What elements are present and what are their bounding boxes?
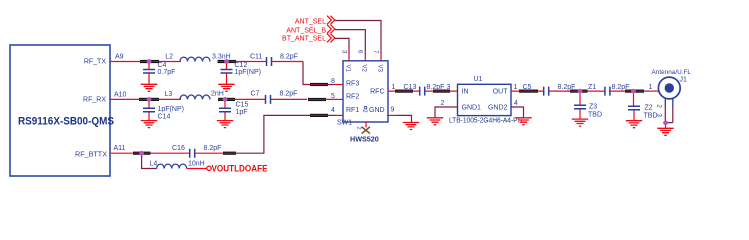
capacitor C15 [219, 108, 231, 112]
wire RF_TX row [110, 61, 303, 63]
component Z2 [628, 106, 640, 110]
SW1 GND pin 2 stub [365, 122, 367, 127]
svg-text:SW1: SW1 [337, 120, 352, 127]
pad bar C5 [519, 90, 538, 93]
wire to VOUTLDOAFE [187, 168, 207, 170]
svg-text:C11: C11 [250, 54, 262, 61]
svg-text:Z2: Z2 [645, 105, 653, 112]
svg-text:3: 3 [447, 84, 451, 91]
svg-text:7: 7 [372, 50, 378, 54]
ground under C14 [141, 121, 157, 128]
svg-text:8.2pF: 8.2pF [280, 91, 298, 98]
ground under C4 [141, 84, 157, 91]
pad bar U1 IN pin [433, 90, 450, 93]
svg-text:A10: A10 [114, 91, 127, 98]
junction dot at J1 shield [663, 120, 668, 125]
component Z3 [574, 105, 586, 109]
wire RF_TX to RF3 (routed) [303, 62, 335, 85]
svg-text:ANT_SEL: ANT_SEL [295, 18, 326, 25]
capacitor C4 [143, 70, 155, 74]
svg-text:A9: A9 [115, 54, 124, 61]
svg-text:8.2pF: 8.2pF [204, 145, 222, 152]
off-page connector BT_ANT_SEL [327, 34, 335, 43]
wire J1 shield to ground [665, 107, 673, 123]
svg-text:9: 9 [391, 107, 395, 114]
wire U1 OUT row [511, 90, 625, 92]
connector J1 center pin [665, 83, 674, 92]
svg-text:U1: U1 [474, 76, 483, 83]
svg-text:RS9116X-SB00-QMS: RS9116X-SB00-QMS [18, 116, 114, 128]
svg-text:RF_BTTX: RF_BTTX [75, 149, 107, 158]
svg-text:C7: C7 [251, 91, 260, 98]
capacitor C12 lead [226, 64, 228, 85]
off-page connector ANT_SEL_B [327, 25, 335, 34]
svg-text:V1: V1 [345, 65, 351, 73]
svg-text:1: 1 [649, 84, 653, 91]
svg-text:2: 2 [361, 109, 367, 113]
no-connect X on pin 2 [362, 127, 370, 134]
capacitor C16 [190, 149, 195, 158]
svg-text:RF1: RF1 [346, 107, 359, 114]
component Z2 lead [633, 93, 635, 106]
ground under C15 [217, 121, 233, 128]
svg-text:6: 6 [357, 50, 363, 54]
svg-text:RF2: RF2 [346, 94, 359, 101]
svg-text:J1: J1 [680, 76, 688, 83]
wire shield ground lead [665, 125, 667, 129]
svg-text:3.3nH: 3.3nH [212, 54, 231, 61]
ground under Z2 [626, 121, 642, 128]
junction dot at C15 [223, 97, 228, 102]
band-pass filter U1 body [458, 84, 512, 115]
inductor L2 [180, 57, 210, 61]
svg-text:GND1: GND1 [462, 105, 482, 112]
pad bar row3 right [223, 152, 236, 155]
svg-text:1pF: 1pF [236, 109, 248, 116]
svg-text:C4: C4 [158, 62, 167, 69]
pad bar RFC pin [395, 90, 413, 93]
svg-text:ANT_SEL_B: ANT_SEL_B [286, 27, 326, 34]
svg-text:GND: GND [369, 107, 385, 114]
wire core stripes through pad bars [133, 62, 644, 154]
svg-text:RFC: RFC [370, 88, 384, 95]
SW1 GND pin 9 wire [397, 115, 412, 122]
svg-text:OUT: OUT [493, 89, 509, 96]
inductor L3 [180, 95, 210, 99]
svg-text:C14: C14 [158, 114, 171, 121]
svg-text:L4: L4 [150, 161, 158, 168]
ground at U1 GND1 [427, 118, 443, 125]
pad bar row1 left [140, 60, 159, 63]
junction dot at Z2 [631, 89, 636, 94]
svg-text:BT_ANT_SEL: BT_ANT_SEL [282, 36, 326, 43]
capacitor C15 lead [224, 102, 226, 121]
ground under C12 [218, 84, 234, 91]
wire ANT_SEL_B [335, 30, 365, 54]
pad bar RF3 pin [310, 83, 328, 86]
connector J1 legs [665, 98, 673, 107]
junction dot at C14 [147, 97, 152, 102]
capacitor C7 [266, 95, 271, 104]
ground at J1 [657, 128, 673, 135]
svg-text:1: 1 [392, 84, 396, 91]
junction dot at Z3 [578, 89, 583, 94]
svg-text:1pF(NP): 1pF(NP) [158, 106, 184, 113]
svg-text:HWS520: HWS520 [350, 134, 379, 143]
inductor L4 [157, 164, 187, 168]
capacitor C11 [267, 57, 272, 66]
wire RF_BTTX to RF1 (routed) [151, 115, 336, 153]
svg-text:5: 5 [331, 93, 335, 100]
capacitor C12 [221, 70, 233, 74]
svg-text:TBD: TBD [644, 113, 658, 120]
svg-text:Z3: Z3 [589, 104, 597, 111]
svg-text:TBD: TBD [588, 112, 602, 119]
connector J1 outer ring [658, 77, 680, 99]
pad bar Z2 [625, 90, 644, 93]
antenna switch SW1 body [343, 61, 388, 122]
svg-text:8.2pF: 8.2pF [280, 54, 298, 61]
pad bar row2 right [218, 98, 235, 101]
component Z3 lead [579, 93, 581, 119]
SW1 pin 2 power-pin ring glyph [364, 106, 367, 109]
svg-text:L2: L2 [165, 54, 173, 61]
pad bar RF1 pin [310, 114, 328, 117]
svg-text:C5: C5 [523, 84, 532, 91]
pad bar row3 left [133, 152, 151, 155]
wire L4 branch [142, 156, 157, 169]
svg-text:1pF(NP): 1pF(NP) [235, 69, 261, 76]
ground under Z3 [572, 119, 588, 126]
svg-text:C16: C16 [172, 145, 185, 152]
svg-text:RF_TX: RF_TX [84, 59, 107, 66]
svg-text:C12: C12 [235, 62, 248, 69]
net VOUTLDOAFE terminal circle [207, 166, 211, 170]
capacitor C4 lead [148, 64, 150, 85]
pad bar Z1 [570, 90, 588, 93]
capacitor 8.2pF (Z1) [605, 87, 610, 96]
pad bar RF2 pin [308, 98, 326, 101]
svg-text:RF3: RF3 [346, 80, 359, 87]
svg-text:4: 4 [331, 107, 335, 114]
wire ANT_SEL [335, 21, 381, 55]
wire BT_ANT_SEL [335, 38, 349, 54]
wire RF_RX row [110, 98, 334, 100]
svg-text:A11: A11 [114, 145, 126, 152]
svg-text:2: 2 [656, 105, 662, 109]
svg-text:L3: L3 [165, 91, 173, 98]
wire U1 GND2 [511, 107, 524, 118]
wire RF3 stub [335, 84, 343, 86]
svg-text:2nH: 2nH [211, 91, 224, 98]
wire RFC to C13 [388, 90, 458, 92]
svg-text:RF_RX: RF_RX [83, 97, 106, 104]
svg-text:4: 4 [514, 100, 518, 107]
svg-text:2: 2 [441, 100, 445, 107]
svg-text:0.7pF: 0.7pF [158, 69, 176, 76]
junction dot at L4 tap [139, 151, 144, 156]
svg-text:10nH: 10nH [188, 161, 205, 168]
capacitor C5 [544, 87, 549, 96]
svg-text:GND2: GND2 [488, 105, 508, 112]
svg-text:C15: C15 [236, 102, 249, 109]
capacitor C13 [420, 87, 425, 96]
off-page connector ANT_SEL [327, 16, 335, 25]
svg-text:IN: IN [462, 89, 469, 96]
wire RF_BTTX row [110, 152, 223, 154]
wire U1 GND1 [435, 107, 458, 118]
svg-text:8: 8 [331, 78, 335, 85]
wire RF2 stub [334, 98, 343, 100]
U2 RS9116X-SB00-QMS module block [10, 45, 110, 176]
svg-text:Antenna/U.FL: Antenna/U.FL [652, 69, 692, 76]
svg-text:VOUTLDOAFE: VOUTLDOAFE [212, 163, 268, 174]
wire to J1 [644, 90, 649, 92]
ground at U1 GND2 [515, 118, 531, 125]
svg-text:Z1: Z1 [588, 84, 596, 91]
svg-text:1: 1 [514, 84, 518, 91]
svg-text:3: 3 [340, 50, 346, 54]
svg-text:C13: C13 [404, 84, 417, 91]
svg-text:V3: V3 [377, 65, 383, 73]
pad bar row2 left [139, 98, 159, 101]
wire RF1 stub [335, 114, 343, 116]
junction dot at C12 [224, 59, 229, 64]
capacitor C14 lead [148, 102, 150, 121]
junction dot at C4 [147, 59, 152, 64]
svg-text:V2: V2 [361, 65, 367, 73]
wire SW1 top pin stubs [349, 54, 381, 61]
ground at SW1 pin 9 [403, 123, 419, 130]
svg-text:LTB-1005-2G4H6-A4-PS: LTB-1005-2G4H6-A4-PS [449, 118, 522, 125]
capacitor C14 [143, 108, 155, 112]
pad bar row1 right [218, 60, 237, 63]
svg-text:2: 2 [356, 127, 362, 130]
